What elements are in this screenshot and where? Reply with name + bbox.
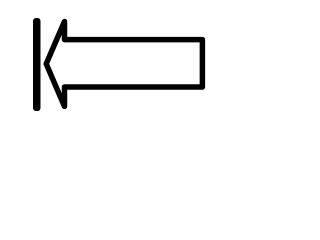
leftwards-arrow-to-bar icon <box>0 0 232 130</box>
left stop bar <box>33 18 41 111</box>
arrow outline (head + shaft) <box>46 22 202 107</box>
